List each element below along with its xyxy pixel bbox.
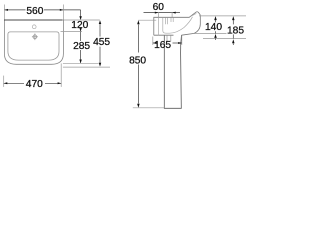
svg-text:470: 470	[26, 79, 43, 90]
svg-text:560: 560	[26, 6, 43, 17]
svg-text:850: 850	[129, 55, 146, 66]
svg-text:120: 120	[71, 20, 88, 31]
svg-text:60: 60	[153, 2, 165, 13]
svg-text:165: 165	[154, 40, 171, 51]
svg-text:455: 455	[93, 37, 110, 48]
svg-text:185: 185	[227, 25, 244, 36]
svg-text:285: 285	[73, 41, 90, 52]
svg-text:140: 140	[205, 22, 222, 33]
